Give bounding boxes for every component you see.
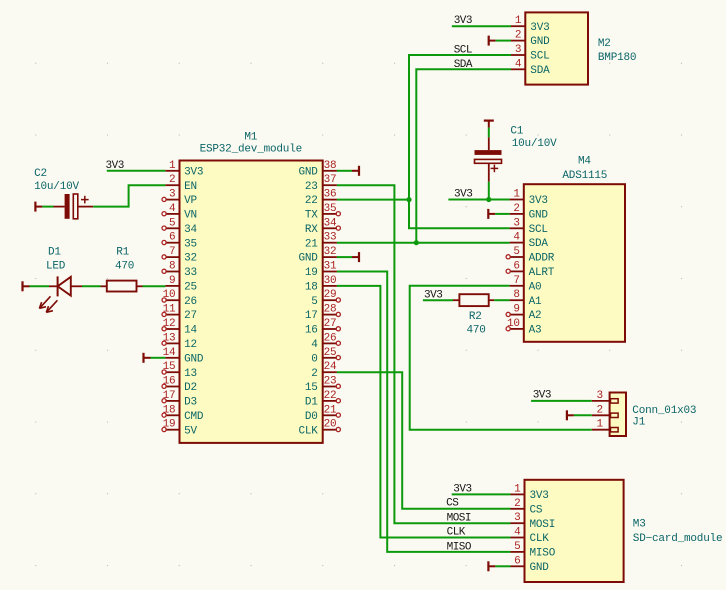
svg-text:8: 8 <box>169 261 175 273</box>
capacitor C1 10u/10V <box>475 137 502 181</box>
svg-text:6: 6 <box>169 232 175 244</box>
svg-text:ESP32_dev_module: ESP32_dev_module <box>200 143 302 155</box>
wire 3V3 to M3 pin 1 <box>452 493 511 495</box>
svg-text:34: 34 <box>184 224 197 236</box>
ground at M1 pin 14 GND <box>142 353 144 363</box>
svg-text:D0: D0 <box>305 411 318 423</box>
M3 pin 1 (3V3) <box>511 483 549 502</box>
M1 pin 22 (D1) right <box>305 390 341 409</box>
svg-text:10u/10V: 10u/10V <box>512 138 557 150</box>
svg-text:29: 29 <box>324 289 337 301</box>
ground at C2 negative plate <box>34 202 36 212</box>
M1 pin 3 (VP) left <box>162 189 198 208</box>
svg-text:21: 21 <box>324 404 337 416</box>
svg-text:C2: C2 <box>34 168 47 180</box>
M1 pin 19 (5V) left <box>162 419 198 438</box>
svg-text:2: 2 <box>515 30 521 42</box>
svg-text:ADS1115: ADS1115 <box>562 170 607 182</box>
svg-text:7: 7 <box>169 246 175 258</box>
M1 pin 27 (16) right <box>305 318 341 337</box>
M4 pin 2 (GND) <box>510 203 549 222</box>
svg-text:MISO: MISO <box>447 541 472 553</box>
svg-text:D3: D3 <box>184 397 197 409</box>
ground at D1 cathode <box>21 281 23 291</box>
svg-text:5: 5 <box>311 296 317 308</box>
svg-text:26: 26 <box>184 296 197 308</box>
svg-text:J1: J1 <box>632 417 645 429</box>
M1 pin 26 (4) right <box>311 332 340 351</box>
svg-text:1: 1 <box>514 483 521 495</box>
junction SCL at M1 22 wire <box>406 197 411 202</box>
ground at J1 pin 2 GND <box>566 410 568 420</box>
capacitor C2 10u/10V <box>54 194 94 219</box>
M1 pin 24 (2) right <box>311 361 337 380</box>
junction C1 / 3V3 rail <box>486 197 491 202</box>
svg-text:EN: EN <box>184 181 197 193</box>
svg-text:34: 34 <box>324 217 337 229</box>
svg-text:3V3: 3V3 <box>529 195 548 207</box>
M4 pin 3 (SCL) <box>510 217 548 236</box>
svg-text:9: 9 <box>513 304 519 316</box>
svg-text:3V3: 3V3 <box>533 390 551 402</box>
svg-text:15: 15 <box>163 361 176 373</box>
svg-text:A0: A0 <box>529 281 542 293</box>
IC M3 SD-card_module body <box>525 480 624 582</box>
svg-text:470: 470 <box>115 260 134 272</box>
svg-text:BMP180: BMP180 <box>598 52 636 64</box>
M1 pin 16 (D2) left <box>162 376 197 395</box>
J1 pin 2 <box>592 404 618 417</box>
M3 pin 3 (MOSI) <box>511 512 556 531</box>
svg-text:19: 19 <box>163 419 176 431</box>
svg-text:MISO: MISO <box>530 548 556 560</box>
svg-text:GND: GND <box>184 353 204 365</box>
svg-text:10: 10 <box>507 318 520 330</box>
M1 pin 38 (GND) right <box>298 160 336 179</box>
svg-text:2: 2 <box>311 368 317 380</box>
wire C2 positive plate to M1 pin 2 EN <box>93 185 165 206</box>
svg-text:25: 25 <box>324 347 337 359</box>
svg-text:22: 22 <box>305 195 318 207</box>
M4 pin 10 (A3) <box>506 318 541 337</box>
ground at M1 pin 38 GND <box>358 166 360 176</box>
svg-text:2: 2 <box>596 404 602 416</box>
svg-text:A1: A1 <box>529 296 542 308</box>
connector J1 Conn_01x03 body <box>610 393 626 437</box>
svg-text:M2: M2 <box>598 38 611 50</box>
svg-text:9: 9 <box>169 275 175 287</box>
svg-text:M3: M3 <box>633 519 646 531</box>
M1 pin 5 (34) left <box>162 217 198 236</box>
svg-text:3V3: 3V3 <box>184 166 203 178</box>
svg-text:12: 12 <box>163 318 176 330</box>
svg-text:GND: GND <box>529 210 549 222</box>
svg-text:33: 33 <box>324 232 337 244</box>
M1 pin 35 (TX) right <box>305 203 341 222</box>
M3 pin 4 (CLK) <box>511 527 550 546</box>
svg-text:CS: CS <box>446 498 459 510</box>
svg-text:22: 22 <box>324 390 337 402</box>
svg-text:GND: GND <box>298 166 318 178</box>
svg-text:D2: D2 <box>184 382 197 394</box>
svg-text:3: 3 <box>169 189 175 201</box>
wire C1 to 3V3 rail <box>488 182 490 200</box>
wire 3V3 label to R2 <box>423 299 453 301</box>
svg-text:R2: R2 <box>469 311 482 323</box>
svg-text:32: 32 <box>324 246 337 258</box>
M1 pin 12 (14) left <box>162 318 198 337</box>
wire M1 pin 31 (19) to M3 pin 5 MISO <box>337 272 511 552</box>
svg-text:35: 35 <box>324 203 337 215</box>
svg-text:3V3: 3V3 <box>530 490 549 502</box>
M1 pin 7 (32) left <box>162 246 197 265</box>
svg-text:CMD: CMD <box>184 411 204 423</box>
svg-text:31: 31 <box>324 261 337 273</box>
svg-text:CS: CS <box>530 504 543 516</box>
svg-text:TX: TX <box>305 210 318 222</box>
svg-text:6: 6 <box>513 260 519 272</box>
svg-text:RX: RX <box>305 224 318 236</box>
svg-text:1: 1 <box>515 15 522 27</box>
svg-text:10: 10 <box>163 289 176 301</box>
M1 pin 25 (0) right <box>311 347 340 366</box>
svg-text:13: 13 <box>163 332 176 344</box>
svg-text:A3: A3 <box>529 325 542 337</box>
wire 3V3 to M4 pin 1 <box>448 199 509 201</box>
svg-text:21: 21 <box>305 238 318 250</box>
M2 pin 4 (SDA) <box>511 58 550 77</box>
svg-text:7: 7 <box>513 275 519 287</box>
M2 pin 1 (3V3) <box>511 15 550 34</box>
svg-text:27: 27 <box>324 318 337 330</box>
M4 pin 8 (A1) <box>510 289 542 308</box>
M1 pin 2 (EN) left <box>165 174 197 193</box>
svg-text:5: 5 <box>513 246 519 258</box>
svg-text:0: 0 <box>311 353 317 365</box>
M1 pin 18 (CMD) left <box>162 404 204 423</box>
M1 pin 30 (18) right <box>305 275 337 294</box>
M1 pin 28 (17) right <box>305 304 341 323</box>
svg-text:12: 12 <box>184 339 197 351</box>
svg-text:35: 35 <box>184 238 197 250</box>
M1 pin 14 (GND) left <box>163 347 204 366</box>
svg-text:SDA: SDA <box>530 65 550 77</box>
M1 pin 17 (D3) left <box>162 390 197 409</box>
svg-text:17: 17 <box>305 310 318 322</box>
M1 pin 6 (35) left <box>162 232 197 251</box>
M1 pin 36 (22) right <box>305 189 337 208</box>
ground at C1 top plate <box>484 119 494 121</box>
M3 pin 5 (MISO) <box>511 541 556 560</box>
svg-text:4: 4 <box>515 58 522 70</box>
svg-text:VP: VP <box>184 195 197 207</box>
svg-text:18: 18 <box>163 404 176 416</box>
J1 pin 3 <box>592 390 618 403</box>
svg-text:A2: A2 <box>529 310 542 322</box>
svg-text:R1: R1 <box>116 247 129 259</box>
svg-text:CLK: CLK <box>298 425 318 437</box>
svg-text:ALRT: ALRT <box>529 267 555 279</box>
svg-text:6: 6 <box>514 555 520 567</box>
ground at M2 pin 2 GND <box>488 36 490 46</box>
wire SCL: M2 pin 3 to vertical and down to M4 pin 3 <box>409 55 511 228</box>
IC M1 ESP32_dev_module body <box>180 161 323 443</box>
svg-text:33: 33 <box>184 267 197 279</box>
svg-text:470: 470 <box>467 325 486 337</box>
wire 3V3 to J1 pin 3 <box>531 400 592 402</box>
svg-text:20: 20 <box>324 419 337 431</box>
svg-text:CLK: CLK <box>447 527 466 539</box>
svg-text:11: 11 <box>163 304 176 316</box>
svg-text:M4: M4 <box>578 156 591 168</box>
ground at M3 pin 6 GND <box>487 561 489 571</box>
svg-text:19: 19 <box>305 267 318 279</box>
svg-text:3V3: 3V3 <box>530 22 549 34</box>
svg-text:1: 1 <box>169 160 176 172</box>
svg-text:MOSI: MOSI <box>447 512 471 524</box>
svg-text:37: 37 <box>324 174 337 186</box>
svg-text:SCL: SCL <box>530 51 549 63</box>
M1 pin 9 (25) left <box>165 275 197 294</box>
resistor R2 470 <box>453 294 494 306</box>
M1 pin 1 (3V3) left <box>165 160 203 179</box>
svg-text:M1: M1 <box>244 131 257 143</box>
svg-text:16: 16 <box>163 376 176 388</box>
M1 pin 11 (27) left <box>162 304 197 323</box>
M4 pin 9 (A2) <box>506 304 541 323</box>
M1 pin 13 (12) left <box>162 332 197 351</box>
svg-text:36: 36 <box>324 189 337 201</box>
svg-text:24: 24 <box>324 361 337 373</box>
M1 pin 34 (RX) right <box>305 217 341 236</box>
svg-text:4: 4 <box>513 232 520 244</box>
svg-text:GND: GND <box>298 253 318 265</box>
svg-text:16: 16 <box>305 325 318 337</box>
svg-text:23: 23 <box>305 181 318 193</box>
M1 pin 4 (VN) left <box>162 203 197 222</box>
M1 pin 33 (21) right <box>305 232 337 251</box>
svg-text:30: 30 <box>324 275 337 287</box>
svg-text:1: 1 <box>513 189 520 201</box>
svg-text:1: 1 <box>596 419 603 431</box>
wire R2 to M4 pin 8 (A1) <box>494 299 509 301</box>
svg-text:C1: C1 <box>510 125 523 137</box>
svg-text:4: 4 <box>514 527 521 539</box>
svg-text:13: 13 <box>184 368 197 380</box>
svg-text:SCL: SCL <box>529 224 548 236</box>
J1 pin 1 <box>592 419 618 432</box>
M1 pin 8 (33) left <box>162 261 197 280</box>
svg-text:5V: 5V <box>184 425 197 437</box>
svg-text:D1: D1 <box>305 397 318 409</box>
svg-text:2: 2 <box>169 174 175 186</box>
svg-text:28: 28 <box>324 304 337 316</box>
IC M2 BMP180 body <box>525 12 588 84</box>
wire M1 pin 33 (21) to M4 pin 4 SDA <box>337 242 510 244</box>
wire 3V3 to M1 pin 1 <box>107 170 166 172</box>
wire 3V3 to M2 pin 1 <box>452 25 511 27</box>
svg-text:5: 5 <box>169 217 175 229</box>
svg-text:23: 23 <box>324 376 337 388</box>
M2 pin 2 (GND) <box>511 30 550 49</box>
svg-text:5: 5 <box>514 541 520 553</box>
junction SDA rail <box>414 240 419 245</box>
svg-text:14: 14 <box>184 325 197 337</box>
svg-text:38: 38 <box>324 160 337 172</box>
svg-text:4: 4 <box>311 339 318 351</box>
svg-text:8: 8 <box>513 289 519 301</box>
M4 pin 6 (ALRT) <box>506 260 555 279</box>
svg-text:CLK: CLK <box>530 533 550 545</box>
wire D1 anode to R1 <box>82 285 101 287</box>
svg-text:17: 17 <box>163 390 176 402</box>
svg-text:3: 3 <box>596 390 602 402</box>
M1 pin 10 (26) left <box>162 289 197 308</box>
M4 pin 4 (SDA) <box>510 232 549 251</box>
svg-text:3: 3 <box>514 512 520 524</box>
M3 pin 6 (GND) <box>511 555 550 574</box>
M1 pin 31 (19) right <box>305 261 337 280</box>
wire R1 to M1 pin 9 (25) <box>143 285 166 287</box>
svg-text:GND: GND <box>530 36 550 48</box>
wire M1 pin 30 (18) to M3 pin 4 CLK <box>337 286 511 538</box>
wire M1 pin 24 (2) to M3 pin 2 CS <box>337 372 511 509</box>
M1 pin 23 (15) right <box>305 376 341 395</box>
svg-text:2: 2 <box>513 203 519 215</box>
M3 pin 2 (CS) <box>511 498 543 517</box>
M4 pin 5 (ADDR) <box>506 246 555 265</box>
M2 pin 3 (SCL) <box>511 44 550 63</box>
IC M4 ADS1115 body <box>524 184 625 342</box>
ground at M4 pin 2 GND <box>487 209 489 219</box>
svg-text:SD−card_module: SD−card_module <box>633 533 723 545</box>
wire M4 pin 7 A0 to J1 pin 1 <box>410 286 592 430</box>
svg-text:2: 2 <box>514 498 520 510</box>
M1 pin 15 (13) left <box>162 361 197 380</box>
M1 pin 29 (5) right <box>311 289 340 308</box>
M4 pin 7 (A0) <box>510 275 542 294</box>
M4 pin 1 (3V3) <box>510 189 548 208</box>
wire M1 pin 36 (22) to SCL vertical <box>337 199 409 201</box>
wire SDA: M2 pin 4 down to SDA rail <box>416 69 511 242</box>
svg-text:GND: GND <box>530 562 550 574</box>
svg-text:D1: D1 <box>48 247 61 259</box>
svg-text:4: 4 <box>169 203 176 215</box>
ground at M1 pin 32 GND <box>358 252 360 262</box>
svg-text:3: 3 <box>515 44 521 56</box>
resistor R1 470 <box>101 281 143 292</box>
wire M1 pin 37 (23) to M3 pin 3 MOSI <box>337 185 511 523</box>
svg-text:3: 3 <box>513 217 519 229</box>
svg-text:ADDR: ADDR <box>529 253 555 265</box>
M1 pin 21 (D0) right <box>305 404 341 423</box>
svg-text:32: 32 <box>184 253 197 265</box>
svg-text:10u/10V: 10u/10V <box>34 181 79 193</box>
svg-text:26: 26 <box>324 332 337 344</box>
svg-text:18: 18 <box>305 282 318 294</box>
M1 pin 20 (CLK) right <box>298 419 340 438</box>
svg-text:25: 25 <box>184 282 197 294</box>
svg-text:27: 27 <box>184 310 197 322</box>
svg-text:Conn_01x03: Conn_01x03 <box>632 405 696 417</box>
svg-text:15: 15 <box>305 382 318 394</box>
M1 pin 37 (23) right <box>305 174 337 193</box>
svg-text:LED: LED <box>46 260 66 272</box>
M1 pin 32 (GND) right <box>298 246 336 265</box>
LED D1 <box>39 276 82 312</box>
svg-text:MOSI: MOSI <box>530 519 556 531</box>
svg-text:VN: VN <box>184 210 197 222</box>
svg-text:SDA: SDA <box>529 238 549 250</box>
